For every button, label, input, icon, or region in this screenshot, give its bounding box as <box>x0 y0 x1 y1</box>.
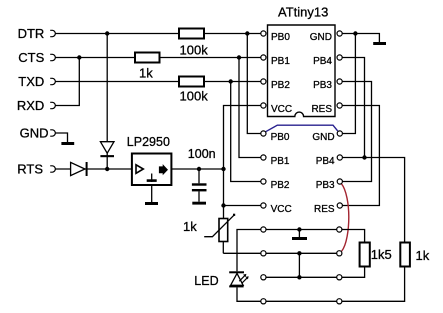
wire GND port stub <box>55 133 67 142</box>
pin circle lower GND <box>337 131 342 136</box>
pin circle row2 left <box>261 251 266 256</box>
pin circle lower VCC <box>261 203 266 208</box>
resistor R2 1k (CTS row) <box>135 53 160 81</box>
trimmer P1 1k <box>183 214 235 254</box>
wire CTS row <box>55 57 261 59</box>
wire switch row4 across <box>266 300 337 302</box>
junction row2 vertical <box>297 251 301 255</box>
wire VCC riser column <box>224 106 261 219</box>
junction lower VCC/trimmer <box>221 203 225 207</box>
resistor R4 1k5 <box>360 243 392 267</box>
svg-text:LP2950: LP2950 <box>127 135 170 149</box>
junction TXD/lower PB2 riser <box>229 79 233 83</box>
svg-text:GND: GND <box>312 132 334 143</box>
port RTS <box>17 161 55 176</box>
pin circle lower PB0 <box>261 131 266 136</box>
svg-text:PB0: PB0 <box>271 132 290 143</box>
wire DTR row <box>55 33 261 35</box>
pin circle U1 PB0 <box>261 31 266 36</box>
wire rail regulator output <box>171 168 223 170</box>
svg-text:PB4: PB4 <box>313 56 332 67</box>
wire row2-row3 vertical <box>298 253 300 277</box>
svg-text:100n: 100n <box>188 147 216 161</box>
wire trimmer to switch row2 <box>223 252 261 254</box>
ground stub row1 <box>298 230 300 238</box>
svg-text:ATtiny13: ATtiny13 <box>278 4 328 19</box>
svg-text:PB3: PB3 <box>313 80 332 91</box>
wire upper GND pin to ground <box>342 34 379 43</box>
wire upper RES to lower RES vertical <box>342 106 379 206</box>
pin circle U1 GND <box>337 31 342 36</box>
wire LED to row4 <box>237 287 261 301</box>
svg-text:PB1: PB1 <box>271 56 290 67</box>
wire switch row1 left <box>237 230 261 272</box>
svg-text:100k: 100k <box>180 89 209 104</box>
diode D2 (RTS series) <box>71 162 88 176</box>
wire riser TXD to lower PB2 <box>231 82 261 182</box>
pin circle lower PB4 <box>337 155 342 160</box>
pin circle row3 left <box>261 275 266 280</box>
wire 1k5 to row3 <box>342 267 365 278</box>
LED D3 <box>194 271 248 288</box>
voltage regulator U2 LP2950 <box>127 135 172 185</box>
svg-text:RTS: RTS <box>17 161 43 176</box>
port RXD <box>17 98 56 113</box>
pin circle row2 right <box>337 251 342 256</box>
svg-text:RES: RES <box>314 204 335 215</box>
port CTS <box>18 50 55 65</box>
svg-text:PB2: PB2 <box>271 180 290 191</box>
pin circle U1 PB2 <box>261 79 266 84</box>
svg-text:PB1: PB1 <box>271 156 290 167</box>
pin circle lower PB1 <box>261 155 266 160</box>
pin circle lower PB2 <box>261 179 266 184</box>
pin circle U1 PB3 <box>337 79 342 84</box>
port TXD <box>18 74 55 89</box>
junction CTS/lower PB1 riser <box>237 55 241 59</box>
svg-text:1k: 1k <box>416 248 430 263</box>
pin circle row1 right <box>337 227 342 232</box>
svg-text:CTS: CTS <box>18 50 44 65</box>
svg-text:LED: LED <box>194 274 218 288</box>
svg-text:GND: GND <box>310 32 332 43</box>
wire TXD row <box>55 81 261 83</box>
wire upper GND to lower GND vertical <box>342 34 355 134</box>
svg-text:100k: 100k <box>180 43 209 58</box>
diode D1 (vertical) <box>100 142 114 158</box>
junction DTR/diode column <box>105 31 109 35</box>
resistor R3 100k (TXD row) <box>179 77 208 104</box>
wire DTR column vertical <box>106 34 108 170</box>
wire 1k to row4 <box>342 267 405 302</box>
svg-text:RES: RES <box>311 104 332 115</box>
resistor R5 1k <box>400 243 429 267</box>
pin circle U1 RES <box>337 103 342 108</box>
blue wire PB0 to GND (lower header) <box>266 125 338 132</box>
wire upper PB4 to lower PB4 vertical <box>342 58 364 158</box>
pin circle lower RES <box>337 203 342 208</box>
svg-text:TXD: TXD <box>18 74 44 89</box>
wire lower PB4 row to 1k resistor <box>342 158 404 244</box>
svg-text:PB0: PB0 <box>271 32 290 43</box>
pin circle U1 PB1 <box>261 55 266 60</box>
junction rail/VCC riser <box>221 167 225 171</box>
junction row1 ground <box>297 227 301 231</box>
ground bar row1 <box>292 237 307 240</box>
wire riser DTR to lower PB0 <box>247 34 261 134</box>
wire riser CTS to lower PB1 <box>239 58 261 158</box>
svg-text:DTR: DTR <box>18 26 45 41</box>
svg-text:RXD: RXD <box>17 98 44 113</box>
pin circle U1 PB4 <box>337 55 342 60</box>
junction lower PB4 row <box>362 155 366 159</box>
red wire lower PB3 to switch row <box>341 184 349 252</box>
pin circle row4 left <box>261 299 266 304</box>
ground below LP2950 <box>145 185 158 205</box>
svg-text:1k: 1k <box>139 66 153 81</box>
svg-text:1k: 1k <box>183 219 197 234</box>
wire row1 to 1k5 <box>342 230 365 243</box>
wire RTS row to regulator <box>55 168 131 170</box>
junction row3 vertical <box>297 275 301 279</box>
wire RXD to CTS riser <box>55 58 79 106</box>
pin circle U1 VCC <box>261 103 266 108</box>
svg-text:PB4: PB4 <box>316 156 335 167</box>
junction upper GND pin <box>353 31 357 35</box>
capacitor C1 100n <box>188 147 216 202</box>
ground bar upper right <box>373 42 386 45</box>
pin circle row3 right <box>337 275 342 280</box>
pin circle row1 left <box>261 227 266 232</box>
port GND <box>20 125 56 140</box>
svg-text:GND: GND <box>20 125 49 140</box>
ground below C1 <box>192 202 206 205</box>
svg-text:PB2: PB2 <box>271 80 290 91</box>
svg-text:VCC: VCC <box>271 104 292 115</box>
junction rail/C1 <box>197 167 201 171</box>
junction RTS/diode column <box>105 167 109 171</box>
wire lower VCC row <box>224 205 261 207</box>
port DTR <box>18 26 56 41</box>
svg-text:PB3: PB3 <box>316 180 335 191</box>
svg-text:1k5: 1k5 <box>371 247 392 262</box>
svg-text:VCC: VCC <box>271 204 292 215</box>
pin circle lower PB3 <box>337 179 342 184</box>
wire switch row1 across <box>266 229 337 231</box>
wire upper PB3 to lower PB3 vertical <box>342 82 371 182</box>
wire switch row2 across <box>266 252 337 254</box>
wire switch row3 across <box>266 276 337 278</box>
IC U1 ATtiny13 box with notch <box>268 4 336 116</box>
junction DTR/lower PB0 riser <box>245 31 249 35</box>
junction CTS/RXD riser <box>77 55 81 59</box>
ground bar GND port <box>61 142 74 145</box>
pin circle row4 right <box>337 299 342 304</box>
resistor R1 100k (DTR row) <box>179 29 208 58</box>
